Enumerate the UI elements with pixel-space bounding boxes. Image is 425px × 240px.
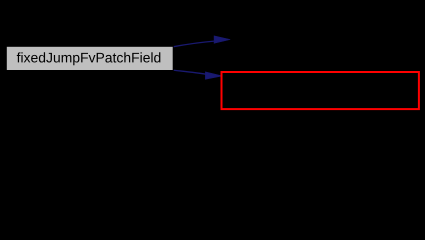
edge/arrow to parent node (top) (173, 36, 230, 47)
edge/arrow to derived node (bottom) (173, 70, 222, 79)
node: parent class (black, invisible on dark bg) (231, 28, 419, 51)
node: fixedJumpFvPatchField (current node, grey fill) (6, 46, 173, 70)
node: derived class (red border, truncated graph) (222, 72, 419, 109)
